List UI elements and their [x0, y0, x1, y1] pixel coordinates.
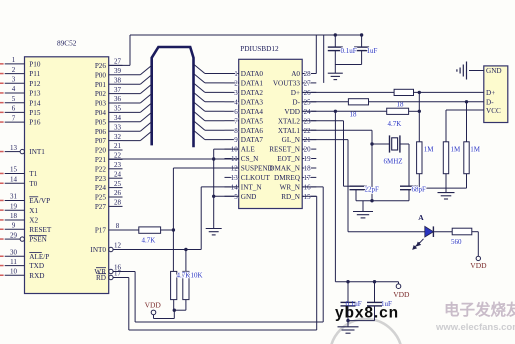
svg-text:6: 6 — [12, 105, 16, 113]
svg-text:GL_N: GL_N — [282, 136, 301, 144]
svg-text:INT0: INT0 — [90, 246, 106, 254]
svg-text:25: 25 — [304, 98, 312, 106]
svg-text:14: 14 — [10, 176, 18, 184]
svg-text:15: 15 — [10, 166, 18, 174]
svg-text:1uF: 1uF — [367, 47, 378, 55]
svg-text:DATA4: DATA4 — [241, 108, 264, 116]
svg-text:P02: P02 — [95, 90, 107, 98]
svg-text:P03: P03 — [95, 100, 107, 108]
svg-text:电子发烧友: 电子发烧友 — [444, 300, 515, 319]
svg-text:8: 8 — [116, 222, 120, 230]
svg-text:DATA2: DATA2 — [241, 89, 264, 97]
svg-text:22: 22 — [114, 152, 122, 160]
svg-text:19: 19 — [10, 202, 18, 210]
svg-text:P00: P00 — [95, 71, 107, 79]
svg-text:RXD: RXD — [29, 272, 44, 280]
svg-text:P17: P17 — [95, 227, 107, 235]
svg-text:39: 39 — [114, 67, 122, 75]
svg-text:DMREQ: DMREQ — [274, 174, 301, 182]
svg-text:12: 12 — [114, 242, 122, 250]
svg-text:29: 29 — [10, 231, 18, 239]
svg-text:DATA5: DATA5 — [241, 117, 264, 125]
svg-text:21: 21 — [304, 136, 312, 144]
svg-text:XTAL1: XTAL1 — [278, 127, 301, 135]
svg-text:19: 19 — [304, 155, 312, 163]
svg-text:17: 17 — [304, 174, 312, 182]
svg-text:5: 5 — [12, 95, 16, 103]
svg-text:DATA7: DATA7 — [241, 136, 264, 144]
svg-text:13: 13 — [231, 174, 239, 182]
svg-text:P25: P25 — [95, 194, 107, 202]
svg-text:D+: D+ — [486, 89, 495, 97]
svg-text:P20: P20 — [95, 147, 107, 155]
svg-text:DMAK_N: DMAK_N — [269, 165, 301, 173]
svg-text:1: 1 — [234, 70, 238, 78]
svg-text:68pF: 68pF — [412, 186, 427, 194]
svg-text:23: 23 — [304, 117, 312, 125]
svg-text:18: 18 — [304, 165, 312, 173]
svg-text:18: 18 — [10, 212, 18, 220]
svg-text:7: 7 — [234, 117, 238, 125]
svg-text:INT1: INT1 — [29, 148, 45, 156]
svg-text:P23: P23 — [95, 175, 107, 183]
svg-text:D+: D+ — [291, 89, 300, 97]
svg-text:6MHZ: 6MHZ — [384, 158, 403, 166]
svg-text:1M: 1M — [424, 146, 435, 154]
svg-text:P04: P04 — [95, 109, 107, 117]
svg-text:38: 38 — [114, 76, 122, 84]
svg-text:3: 3 — [234, 89, 238, 97]
svg-text:D-: D- — [486, 99, 494, 107]
svg-text:P26: P26 — [95, 62, 107, 70]
svg-text:1M: 1M — [470, 146, 481, 154]
svg-text:EA/VP: EA/VP — [29, 197, 50, 205]
svg-text:10: 10 — [10, 268, 18, 276]
svg-text:1: 1 — [12, 56, 16, 64]
svg-text:21: 21 — [114, 142, 122, 150]
svg-text:28: 28 — [304, 70, 312, 78]
svg-text:EOT_N: EOT_N — [277, 155, 301, 163]
svg-text:A: A — [418, 213, 424, 222]
svg-text:4: 4 — [234, 98, 238, 106]
svg-text:10K: 10K — [191, 271, 203, 279]
svg-text:35: 35 — [114, 105, 122, 113]
svg-text:P15: P15 — [29, 109, 41, 117]
svg-text:DATA3: DATA3 — [241, 98, 264, 106]
svg-text:13: 13 — [10, 144, 18, 152]
svg-text:P05: P05 — [95, 118, 107, 126]
svg-text:560: 560 — [451, 238, 462, 246]
svg-text:GND: GND — [486, 67, 502, 75]
svg-text:5: 5 — [234, 193, 238, 201]
svg-text:SUSPEND: SUSPEND — [241, 165, 273, 173]
svg-text:P01: P01 — [95, 81, 107, 89]
svg-text:20: 20 — [304, 146, 312, 154]
svg-text:4: 4 — [12, 85, 16, 93]
svg-text:A0: A0 — [291, 70, 300, 78]
svg-text:1M: 1M — [451, 146, 462, 154]
svg-text:2: 2 — [12, 66, 16, 74]
svg-text:33: 33 — [114, 123, 122, 131]
svg-text:P10: P10 — [29, 61, 41, 69]
svg-text:RD: RD — [96, 274, 106, 282]
svg-text:89C52: 89C52 — [57, 38, 77, 47]
svg-text:26: 26 — [114, 189, 122, 197]
svg-text:15: 15 — [304, 193, 312, 201]
svg-text:36: 36 — [114, 95, 122, 103]
svg-text:P24: P24 — [95, 184, 107, 192]
svg-text:14: 14 — [231, 184, 239, 192]
svg-text:4.7K: 4.7K — [177, 271, 191, 279]
svg-text:22: 22 — [304, 127, 312, 135]
svg-text:DATA6: DATA6 — [241, 127, 264, 135]
svg-text:ybx8.cn: ybx8.cn — [335, 305, 399, 322]
svg-text:VCC: VCC — [486, 107, 501, 115]
svg-text:RESET: RESET — [29, 226, 52, 234]
svg-text:28: 28 — [114, 199, 122, 207]
svg-text:P07: P07 — [95, 137, 107, 145]
svg-text:23: 23 — [114, 161, 122, 169]
svg-text:9: 9 — [12, 222, 16, 230]
svg-text:VDD: VDD — [393, 290, 410, 299]
svg-text:32: 32 — [114, 133, 122, 141]
svg-text:RESET_N: RESET_N — [269, 146, 301, 154]
svg-text:31: 31 — [10, 193, 18, 201]
svg-text:7: 7 — [12, 114, 16, 122]
svg-text:2: 2 — [234, 80, 238, 88]
svg-text:30: 30 — [10, 249, 18, 257]
svg-text:4.7K: 4.7K — [388, 120, 402, 128]
svg-text:P21: P21 — [95, 156, 107, 164]
svg-text:XTAL2: XTAL2 — [278, 117, 301, 125]
svg-text:T1: T1 — [29, 170, 37, 178]
svg-text:P06: P06 — [95, 128, 107, 136]
svg-text:TXD: TXD — [29, 262, 44, 270]
svg-text:26: 26 — [304, 89, 312, 97]
svg-text:VOUT33: VOUT33 — [273, 80, 301, 88]
svg-text:P22: P22 — [95, 165, 107, 173]
svg-text:ALE/P: ALE/P — [29, 253, 49, 261]
svg-text:T0: T0 — [29, 180, 37, 188]
svg-text:12: 12 — [231, 165, 239, 173]
svg-text:DATA0: DATA0 — [241, 70, 264, 78]
svg-text:34: 34 — [114, 114, 122, 122]
svg-text:www.elecfans.com: www.elecfans.com — [435, 322, 515, 333]
svg-text:8: 8 — [234, 127, 238, 135]
svg-text:WR_N: WR_N — [280, 184, 301, 192]
svg-text:INT_N: INT_N — [241, 184, 263, 192]
svg-text:11: 11 — [10, 258, 17, 266]
svg-text:9: 9 — [234, 136, 238, 144]
svg-text:27: 27 — [304, 80, 312, 88]
svg-text:P14: P14 — [29, 99, 41, 107]
svg-text:P27: P27 — [95, 203, 107, 211]
svg-text:4.7K: 4.7K — [142, 236, 156, 244]
svg-text:P16: P16 — [29, 119, 41, 127]
svg-text:VDD: VDD — [145, 301, 162, 310]
svg-text:GND: GND — [241, 193, 257, 201]
svg-text:0.1uF: 0.1uF — [341, 47, 357, 55]
svg-text:24: 24 — [304, 108, 312, 116]
svg-text:CLKOUT: CLKOUT — [241, 174, 271, 182]
svg-text:25: 25 — [114, 180, 122, 188]
svg-text:X1: X1 — [29, 207, 38, 215]
svg-text:DATA1: DATA1 — [241, 80, 264, 88]
svg-text:27: 27 — [114, 58, 122, 66]
svg-text:24: 24 — [114, 170, 122, 178]
svg-text:PSEN: PSEN — [29, 236, 47, 244]
svg-text:10: 10 — [231, 146, 239, 154]
svg-text:ALE: ALE — [241, 146, 256, 154]
svg-text:P11: P11 — [29, 70, 40, 78]
svg-text:X2: X2 — [29, 217, 38, 225]
svg-text:22pF: 22pF — [365, 186, 380, 194]
svg-text:P13: P13 — [29, 90, 41, 98]
svg-text:37: 37 — [114, 86, 122, 94]
svg-text:RD_N: RD_N — [281, 193, 301, 201]
svg-text:CS_N: CS_N — [241, 155, 259, 163]
svg-text:6: 6 — [234, 108, 238, 116]
svg-text:D-: D- — [292, 98, 300, 106]
svg-text:3: 3 — [12, 76, 16, 84]
svg-text:17: 17 — [114, 270, 122, 278]
svg-text:PDIUSBD12: PDIUSBD12 — [240, 44, 279, 53]
svg-text:VDD: VDD — [470, 261, 487, 270]
svg-text:P12: P12 — [29, 80, 41, 88]
svg-text:VDD: VDD — [284, 108, 300, 116]
svg-text:16: 16 — [304, 184, 312, 192]
